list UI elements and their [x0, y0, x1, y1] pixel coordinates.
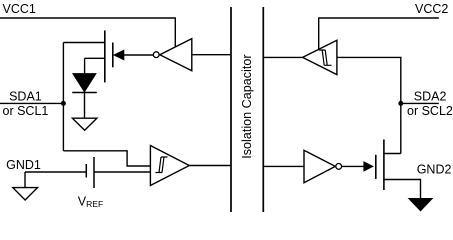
svg-text:VCC1: VCC1 — [3, 2, 36, 16]
wire Schmitt U2 output — [189, 165, 231, 167]
wire SDA1 branch vertical — [62, 43, 64, 151]
wire Schmitt upper input step — [63, 151, 150, 166]
ground (below D1) — [72, 118, 97, 130]
wire Q1 source stub — [85, 57, 105, 59]
arrow into Q2 gate — [363, 161, 374, 172]
op-amp U3 Schmitt trigger (top-right, points left) — [303, 40, 337, 74]
wire VCC1 rail — [0, 18, 175, 47]
hysteresis symbol U3 — [319, 50, 332, 65]
svg-text:or SCL1: or SCL1 — [3, 104, 49, 118]
wire SDA2 — [401, 102, 439, 104]
ground GND1 — [13, 188, 38, 200]
svg-text:SDA2: SDA2 — [414, 90, 447, 104]
wire Schmitt U3 output — [263, 56, 302, 58]
wire battery to Schmitt — [94, 171, 150, 173]
op-amp U1 inverter (top-left, points left) — [153, 39, 192, 71]
wire D1 cathode to ground — [84, 93, 86, 119]
wire inverter U1 input — [192, 54, 231, 56]
node SDA2 junction — [398, 101, 403, 106]
isolation barrier left plate — [230, 7, 232, 212]
transistor Q2 (right MOSFET) — [376, 140, 384, 191]
ground GND2 — [409, 199, 432, 211]
wire Q2 source to GND2 — [384, 180, 421, 199]
wire Q2 drain stub — [384, 153, 401, 155]
wire VCC2 rail — [319, 18, 439, 49]
wire inverter U1 output to Q1 gate — [124, 54, 153, 56]
wire SDA1 — [0, 102, 63, 104]
op-amp U4 inverter (bottom-right, points right) — [304, 150, 342, 182]
wire Q1 drain stub — [63, 42, 104, 44]
svg-text:VCC2: VCC2 — [415, 2, 448, 16]
op-amp U2 Schmitt trigger (bottom-left, points right) — [150, 146, 189, 186]
wire GND1 to battery — [25, 172, 86, 188]
wire D1 anode — [84, 58, 86, 73]
svg-text:GND1: GND1 — [6, 158, 41, 172]
isolation barrier right plate — [262, 7, 264, 212]
diode D1 — [72, 74, 97, 93]
transistor Q1 (left MOSFET) — [105, 30, 113, 82]
arrow into Q1 gate — [113, 50, 124, 61]
svg-text:or SCL2: or SCL2 — [407, 104, 453, 118]
hysteresis symbol U2 — [156, 157, 168, 173]
wire inverter U4 output to Q2 gate — [342, 165, 364, 167]
svg-text:SDA1: SDA1 — [9, 90, 42, 104]
svg-text:Isolation Capacitor: Isolation Capacitor — [240, 54, 254, 158]
battery VREF — [86, 157, 94, 188]
node SDA1 junction — [61, 101, 66, 106]
wire inverter U4 input — [263, 165, 304, 167]
svg-text:GND2: GND2 — [417, 163, 452, 177]
wire Schmitt U3 input / SDA2 vertical — [337, 57, 401, 153]
